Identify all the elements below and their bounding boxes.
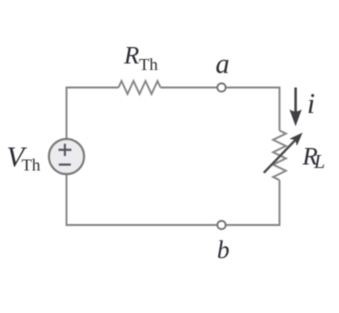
wire: right branch lower + bottom wire + left branch lower: [67, 174, 280, 225]
resistor R_L (variable) zigzag: [273, 131, 286, 181]
node a terminal: [217, 83, 225, 91]
svg-text:Th: Th: [139, 55, 158, 74]
current arrow i: [289, 88, 301, 127]
variable-resistor arrow through R_L: [264, 133, 303, 173]
wire: left branch upper + top wire to R_Th: [67, 88, 119, 140]
voltage source V_Th: [49, 139, 84, 174]
wire: top wire from R_Th through node a to top-right corner, down to R_L: [161, 88, 280, 131]
svg-text:a: a: [216, 49, 230, 80]
resistor R_Th: [119, 81, 161, 94]
node b terminal: [217, 221, 225, 229]
svg-text:L: L: [313, 151, 325, 173]
svg-text:b: b: [217, 237, 230, 264]
svg-text:i: i: [307, 88, 315, 120]
plus sign: [59, 144, 72, 156]
minus sign: [59, 164, 71, 166]
svg-text:Th: Th: [22, 156, 41, 175]
svg-text:R: R: [123, 43, 139, 70]
